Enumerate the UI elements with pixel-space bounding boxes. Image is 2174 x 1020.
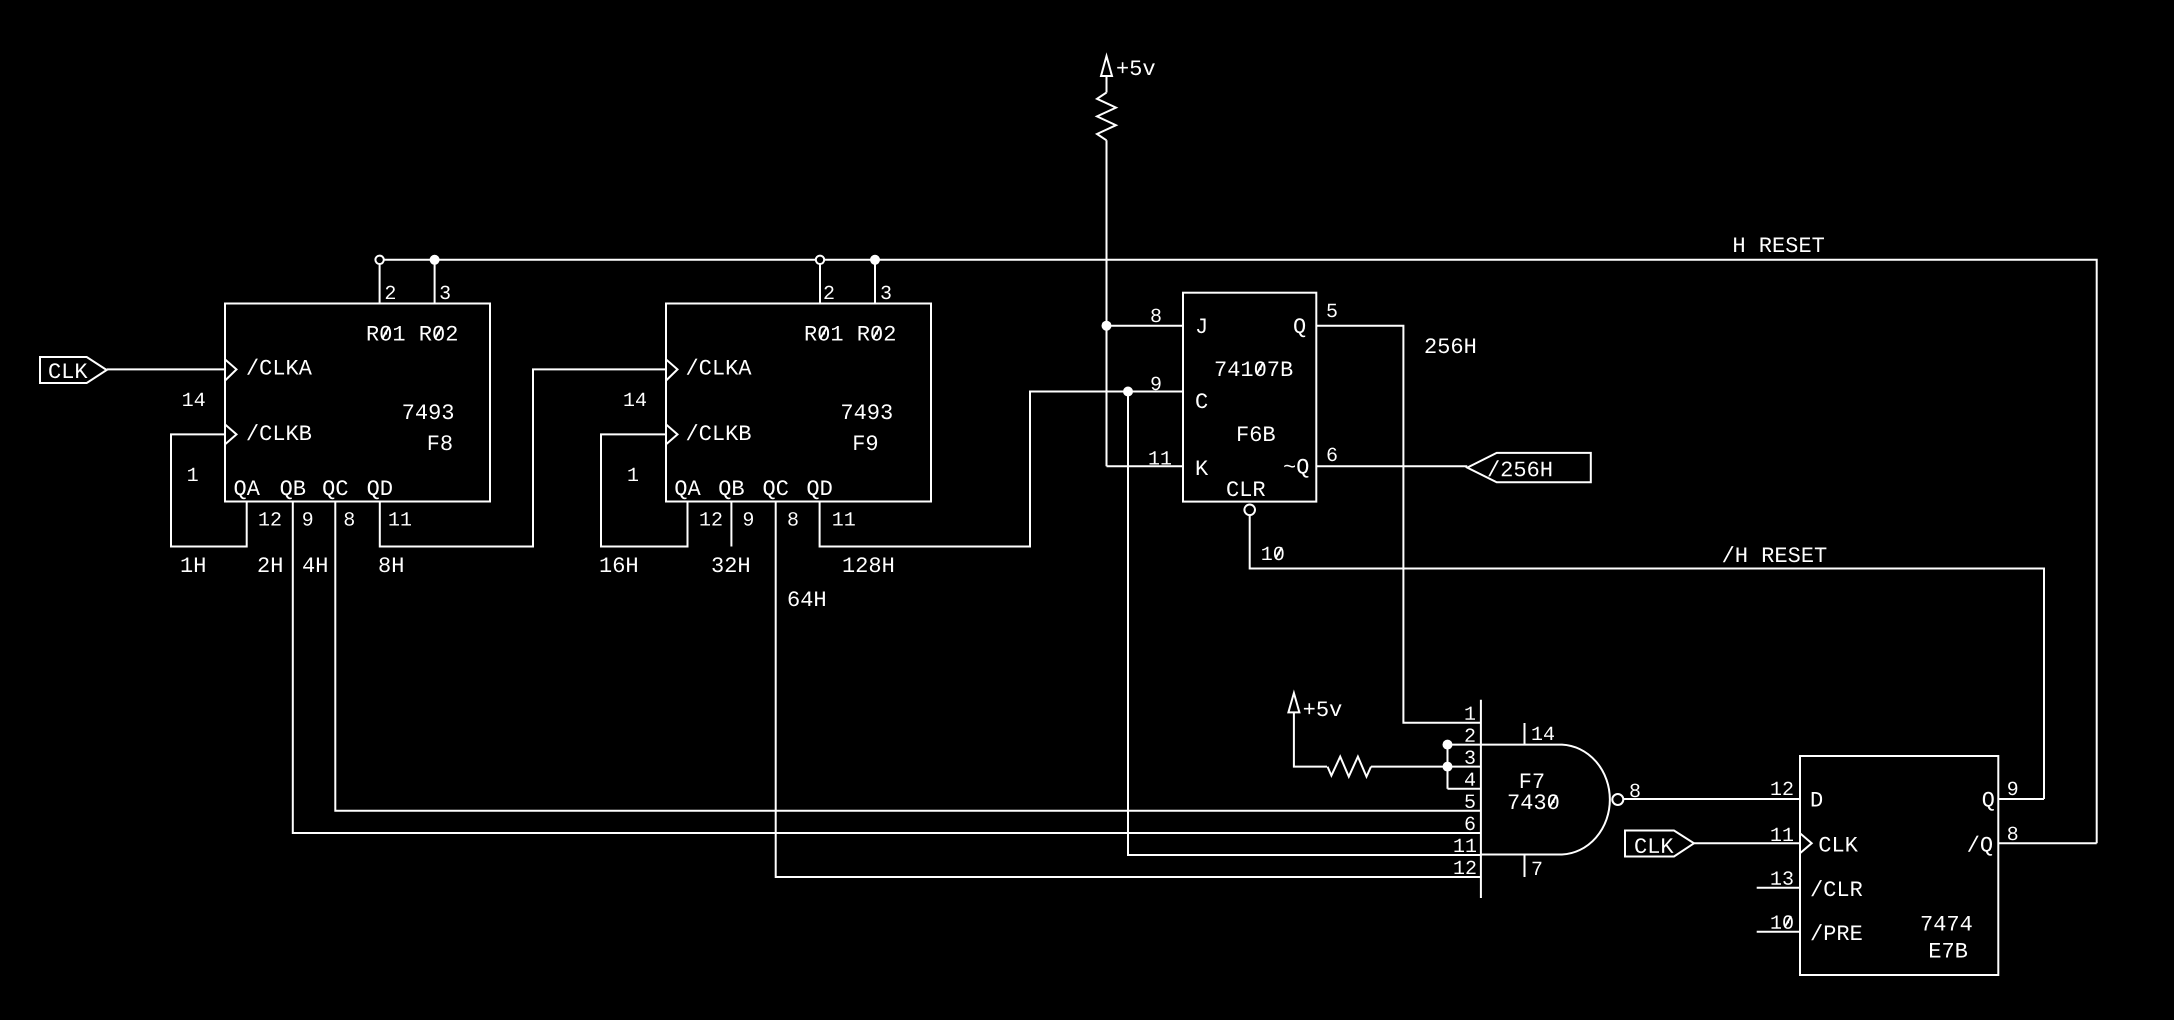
node: open connector circle at F8 pin 2: [375, 256, 383, 264]
F6B pin name CLR: [1227, 481, 1265, 496]
resistor R (pull-up to F7 pins 2,3,4): [1328, 757, 1372, 777]
wire: +5v down to resistor: [1294, 712, 1327, 766]
F6B pin name C: [1196, 393, 1207, 408]
pin number 12 (F8 QA): [259, 512, 280, 525]
wire: F6B ~Q to /256H flag: [1316, 465, 1467, 467]
pin number 14 (F7 Vcc): [1532, 727, 1554, 740]
pin number 9 (F9 QB): [744, 512, 753, 526]
wire: F8 QC (4H) down and right to F7 pin 5: [335, 502, 1481, 811]
pin number 3 (F8): [440, 286, 449, 300]
pin number 11 (E7B CLK): [1771, 828, 1793, 841]
wire: F9 QD (128H) to F6B C input: [820, 392, 1183, 547]
F8 reference designator: [429, 435, 452, 450]
wire: F8 pin 2 stub: [379, 264, 381, 303]
net label 16H: [601, 557, 637, 572]
E7B pin name CLK: [1820, 837, 1858, 852]
IC F6B 74107B flip-flop body: [1183, 293, 1316, 502]
connector flag CLK (to E7B): [1625, 831, 1694, 857]
wire: F6B Q (256H) to F7 pin 1: [1316, 326, 1481, 723]
pin number 11 (F7): [1454, 839, 1476, 852]
F9 clock wedge CLKA: [666, 359, 678, 380]
pin number 14 (F9 CLKA): [624, 393, 646, 406]
resistor R (pull-up to F6B J,K): [1097, 93, 1116, 141]
IC F9 7493 counter body: [666, 304, 931, 502]
pin number 12 (F7): [1454, 861, 1475, 874]
junction dot at F6B J: [1102, 321, 1112, 331]
wire: net H RESET from F8 pin2 across top, down right side to E7B /Q: [380, 260, 2097, 844]
wire: resistor to F7 pin 3 row: [1371, 766, 1481, 768]
E7B part number 7474: [1922, 916, 1972, 931]
F7 part number 7430: [1509, 794, 1559, 809]
net label 64H: [789, 591, 825, 606]
F9 pin name /CLKB: [687, 424, 751, 440]
pin number 5 (F7): [1465, 795, 1475, 808]
net label 256H: [1426, 338, 1476, 353]
pin number 5 (F6B Q): [1327, 304, 1337, 317]
F7 power pin 14 tick: [1524, 723, 1526, 745]
wire: E7B /CLR stub: [1757, 887, 1800, 889]
junction dot at F8 pin 3 on H RESET: [430, 255, 440, 265]
wire: F8 QB (2H) down and right to F7 pin 6: [293, 502, 1481, 834]
F8 clock wedge CLKB: [225, 424, 237, 444]
pin number 3 (F9): [881, 286, 891, 300]
pin number 9 (F8 QB): [303, 512, 312, 526]
pin number 11 (F9 QD): [833, 512, 855, 525]
pin number 6 (F7): [1466, 817, 1475, 831]
pin number 14 (F8 CLKA): [183, 393, 205, 406]
wire: CLK to F8 /CLKA: [107, 368, 225, 370]
E7B pin name /Q: [1968, 836, 1992, 856]
wire: E7B /PRE stub: [1757, 931, 1800, 933]
pin number 6 (F6B ~Q): [1328, 448, 1337, 462]
F6B reference designator: [1238, 426, 1275, 441]
gate F7 output inversion bubble: [1612, 794, 1623, 805]
F7 power pin 7 tick: [1524, 855, 1526, 878]
E7B pin name D: [1812, 792, 1822, 807]
pin number 13 (E7B /CLR): [1771, 871, 1792, 885]
wire: F9 pin 3 stub: [874, 260, 876, 304]
wire: CLK to E7B clock: [1694, 842, 1800, 844]
pin number 10 (F6B CLR): [1262, 547, 1283, 561]
E7B clock wedge: [1800, 833, 1812, 853]
junction dot at F9 pin 3 on H RESET: [870, 255, 880, 265]
wire: +5v to resistor: [1106, 76, 1108, 93]
wire: F9 QC (64H) down and right to F7 pin 12: [776, 502, 1481, 878]
net label /H RESET: [1723, 546, 1827, 562]
wire: F7 pin 4 stub: [1448, 788, 1481, 790]
pin number 11 (F8 QD): [389, 512, 411, 525]
wire: F9 QB (32H) stub: [730, 502, 732, 547]
F9 clock wedge CLKB: [666, 424, 678, 444]
pin number 11 (F6B K): [1149, 451, 1171, 464]
wire: E7B Q to /H RESET net: [1998, 798, 2044, 800]
gate F7 7430 AND body: [1481, 745, 1610, 855]
net label H RESET: [1734, 237, 1824, 252]
F6B pin name K: [1197, 461, 1209, 476]
F7 reference designator: [1521, 774, 1544, 789]
node: open connector circle at F9 pin 2: [816, 256, 824, 264]
net label 128H: [844, 557, 894, 572]
pin number 9 (E7B Q): [2008, 782, 2017, 796]
net label 8H: [379, 557, 402, 572]
F6B CLR bubble: [1244, 505, 1255, 516]
wire: E7B /Q to H RESET net: [1998, 842, 2096, 844]
F6B pin name Q: [1294, 318, 1305, 337]
junction dot 128H branch at F6B C: [1123, 387, 1133, 397]
junction dot at F7 pin 3 tie: [1443, 762, 1453, 772]
junction dot at F7 pin 2 tie: [1443, 740, 1453, 750]
E7B pin name /CLR: [1811, 880, 1862, 896]
pin number 1 (F7): [1465, 707, 1475, 720]
pin number 8 (E7B /Q): [2008, 827, 2017, 841]
F8 pin names R01 R02: [368, 326, 457, 341]
connector flag /256H (output): [1467, 453, 1591, 482]
pin number 4 (F7): [1465, 773, 1475, 786]
pin number 7 (F7 GND): [1533, 862, 1542, 875]
pin number 8 (F8 QC): [345, 512, 354, 526]
IC E7B 7474 flip-flop body: [1800, 756, 1998, 975]
F8 part number 7493: [403, 404, 453, 419]
pin number 9 (F6B C): [1151, 377, 1160, 391]
wire: F9 QA (16H) loop to /CLKB: [601, 434, 688, 546]
F9 part number 7493: [842, 404, 892, 419]
pin number 2 (F7): [1465, 728, 1474, 741]
E7B reference designator: [1930, 943, 1967, 958]
power label +5v (top): [1117, 61, 1155, 76]
pin number 10 (E7B /PRE): [1771, 915, 1792, 929]
power label +5v (mid): [1304, 702, 1342, 717]
wire: F6B K pin row: [1107, 465, 1184, 467]
E7B pin name Q: [1983, 792, 1994, 811]
pin number 12 (F9 QA): [700, 512, 721, 525]
F9 pin name /CLKA: [687, 359, 752, 375]
net label 1H: [182, 558, 205, 573]
wire: F8 QA (1H) loop to /CLKB: [171, 434, 247, 546]
slashed zero marks (CAD font zeros): [383, 327, 1792, 927]
pin number 2 (F8): [386, 286, 395, 299]
F8 pin names QA QB QC QD: [235, 480, 260, 499]
F6B part number 74107B: [1216, 361, 1293, 376]
pin number 8 (F7 output): [1630, 784, 1639, 798]
net label 2H: [259, 557, 282, 572]
wire: F8 QD (8H) to F9 /CLKA: [380, 369, 666, 546]
net label 32H: [712, 557, 749, 572]
wire: F7 output (pin 8) to E7B D: [1623, 798, 1800, 800]
F9 pin names QA QB QC QD: [675, 480, 700, 499]
wire: F9 pin 2 stub: [819, 264, 821, 303]
wire: F7 pin 2 stub: [1448, 744, 1481, 746]
wire: tie bar pins 2-3-4: [1447, 745, 1449, 789]
power symbol +5v (mid) arrow: [1288, 693, 1299, 712]
pin number 1 (F8 CLKB): [188, 468, 198, 481]
F6B pin name ~Q: [1284, 459, 1308, 478]
IC F8 7493 counter body: [225, 304, 490, 502]
F9 reference designator: [854, 435, 877, 450]
pin number 2 (F9): [824, 286, 833, 299]
wire: resistor down to F6B J and K: [1106, 140, 1108, 466]
F8 pin name /CLKB: [247, 424, 311, 440]
connector flag CLK (left input): [40, 357, 107, 383]
pin number 12 (E7B D): [1771, 782, 1792, 795]
power symbol +5v (top) arrow: [1101, 56, 1112, 76]
wire: F8 pin 3 stub: [434, 260, 436, 304]
wire: net /H RESET from F6B CLR right and down to E7B Q: [1250, 515, 2044, 799]
E7B pin name /PRE: [1811, 924, 1862, 940]
F9 pin names R01 R02: [806, 326, 895, 341]
pin number 1 (F9 CLKB): [628, 468, 638, 481]
pin number 8 (F9 QC): [788, 512, 797, 526]
net label 4H: [303, 558, 327, 573]
wire: 128H branch down to F7 pin 11: [1128, 392, 1481, 856]
F6B pin name J: [1197, 319, 1206, 334]
F8 pin name /CLKA: [247, 359, 312, 375]
pin number 3 (F7): [1465, 750, 1475, 764]
pin number 8 (F6B J): [1151, 309, 1160, 323]
wire: F6B J pin row: [1107, 325, 1184, 327]
gate F7 7430 input bar: [1480, 700, 1482, 898]
F8 clock wedge CLKA: [225, 359, 237, 380]
